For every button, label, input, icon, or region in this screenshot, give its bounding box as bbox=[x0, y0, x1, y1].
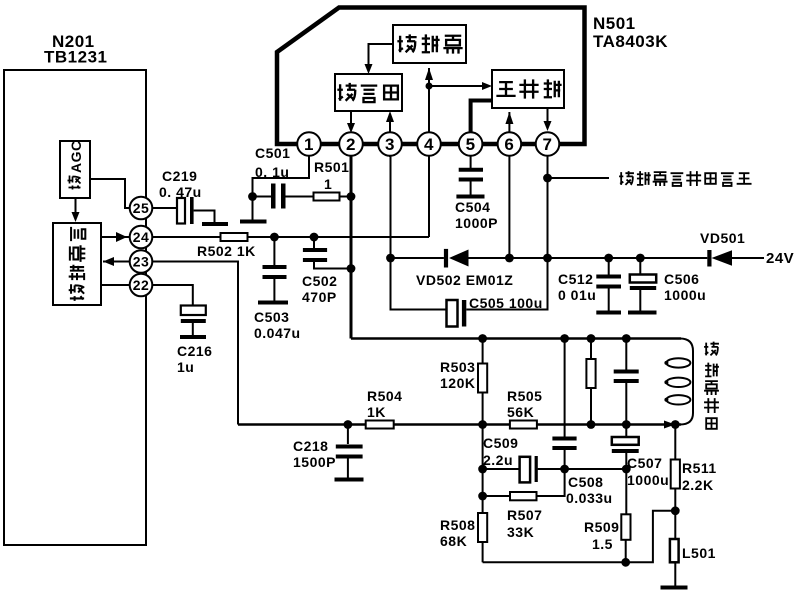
coil loop 1 bbox=[666, 358, 690, 367]
wire pin5 down to C504 bbox=[470, 155, 472, 168]
block 场AGC bbox=[60, 140, 90, 198]
svg-text:1u: 1u bbox=[177, 359, 194, 375]
svg-text:25: 25 bbox=[133, 200, 150, 216]
capacitor C507 bbox=[612, 425, 669, 489]
resistor R509 bbox=[584, 469, 631, 562]
junction coil bottom bbox=[671, 420, 680, 429]
resistor unlabeled bbox=[586, 339, 595, 425]
svg-text:3: 3 bbox=[385, 135, 395, 154]
svg-text:VD502 EM01Z: VD502 EM01Z bbox=[416, 272, 513, 288]
svg-text:0.047u: 0.047u bbox=[254, 325, 301, 341]
junction aux resistor bottom bbox=[587, 420, 596, 429]
inductor L501 bbox=[670, 539, 716, 586]
wire pin1 L-path bbox=[253, 156, 310, 197]
capacitor C218 bbox=[293, 425, 363, 478]
wire pin4 down to R502 line bbox=[428, 155, 430, 237]
wire top bus bbox=[351, 337, 681, 340]
arrow into coil bottom junction bbox=[664, 421, 675, 429]
junction R507 left bbox=[478, 492, 487, 501]
svg-text:0.033u: 0.033u bbox=[566, 490, 613, 506]
junction aux cap top on bus bbox=[622, 334, 631, 343]
svg-text:0. 47u: 0. 47u bbox=[159, 184, 202, 200]
capacitor C503 bbox=[254, 237, 301, 341]
junction R501/pin2 line bbox=[347, 192, 356, 201]
svg-text:1000u: 1000u bbox=[664, 287, 706, 303]
diode VD501 bbox=[700, 230, 764, 267]
svg-text:R511: R511 bbox=[682, 460, 717, 476]
svg-text:C502: C502 bbox=[302, 273, 337, 289]
junction C512 top bbox=[604, 254, 613, 263]
coil loop 3 bbox=[666, 395, 690, 404]
pin 23 bbox=[130, 250, 153, 273]
svg-text:C504: C504 bbox=[455, 199, 490, 215]
pin 1 bbox=[297, 132, 321, 156]
svg-text:5: 5 bbox=[466, 135, 476, 154]
wire pin2 vertical down to bus bbox=[350, 156, 353, 339]
resistor R508 bbox=[440, 425, 487, 563]
svg-text:2.2K: 2.2K bbox=[682, 477, 714, 493]
svg-text:C218: C218 bbox=[293, 438, 328, 454]
resistor R505 bbox=[507, 388, 542, 429]
svg-text:C506: C506 bbox=[664, 271, 699, 287]
svg-text:R508: R508 bbox=[440, 517, 475, 533]
resistor R502 bbox=[197, 233, 256, 259]
svg-text:C219: C219 bbox=[162, 168, 197, 184]
wire pin4 branch to 泵电源 with arrow bbox=[426, 82, 493, 90]
junction pin6 line bbox=[505, 254, 514, 263]
svg-text:1: 1 bbox=[304, 135, 314, 154]
ground for node A bbox=[240, 220, 267, 224]
wire middle line C509 bbox=[483, 468, 627, 470]
pin 25 bbox=[130, 197, 153, 220]
ground for C218 bbox=[335, 478, 364, 482]
svg-text:VD501: VD501 bbox=[700, 230, 745, 246]
ground for C512 bbox=[596, 311, 621, 315]
label 场逆程脉冲输出 bbox=[619, 171, 751, 186]
svg-text:R503: R503 bbox=[440, 359, 475, 375]
capacitor C506 bbox=[630, 258, 706, 311]
capacitor C216 bbox=[177, 306, 212, 376]
svg-text:R504: R504 bbox=[367, 388, 402, 404]
wire pin7 down bbox=[547, 155, 549, 258]
svg-text:1500P: 1500P bbox=[293, 454, 336, 470]
wire VD502 horizontal line bbox=[391, 257, 708, 259]
pin 4 bbox=[417, 132, 441, 156]
junction C218 top bbox=[344, 420, 353, 429]
pin 5 bbox=[459, 132, 483, 156]
svg-text:R505: R505 bbox=[507, 388, 542, 404]
wire 泵电源 to pin7 with arrow bbox=[544, 108, 552, 131]
junction left middle bbox=[478, 465, 487, 474]
svg-text:C508: C508 bbox=[568, 474, 603, 490]
ground for C504 bbox=[456, 195, 484, 199]
svg-text:C512: C512 bbox=[558, 271, 593, 287]
resistor R507 bbox=[483, 469, 565, 540]
resistor R501 bbox=[314, 159, 352, 201]
svg-text:56K: 56K bbox=[507, 404, 534, 420]
block 场锯齿波 bbox=[53, 223, 101, 305]
block 场输出 bbox=[335, 74, 402, 111]
junction pin7 pulse branch bbox=[543, 174, 552, 183]
svg-text:0 01u: 0 01u bbox=[558, 287, 596, 303]
junction R503 top on bus bbox=[478, 334, 487, 343]
svg-text:24V: 24V bbox=[766, 250, 794, 267]
svg-text:2.2u: 2.2u bbox=[483, 452, 513, 468]
svg-text:0. 1u: 0. 1u bbox=[255, 164, 289, 180]
wire pulse output branch bbox=[548, 177, 610, 179]
wire pin3 to 场输出 with arrow bbox=[386, 111, 394, 157]
svg-text:1.5: 1.5 bbox=[592, 536, 613, 552]
svg-text:AGC: AGC bbox=[68, 140, 84, 173]
node A junction bbox=[248, 192, 257, 201]
capacitor C501 bbox=[253, 145, 314, 209]
svg-text:1000P: 1000P bbox=[455, 215, 498, 231]
pin 7 bbox=[536, 132, 560, 156]
block 泵电源 bbox=[492, 70, 564, 108]
pin 2 bbox=[339, 132, 363, 156]
junction C507 bottom bbox=[622, 465, 631, 474]
svg-text:33K: 33K bbox=[507, 524, 534, 540]
capacitor C504 bbox=[455, 170, 498, 231]
svg-text:TA8403K: TA8403K bbox=[593, 32, 668, 51]
svg-text:L501: L501 bbox=[682, 545, 716, 561]
junction C508 top on bus bbox=[560, 334, 569, 343]
wire R502 line from pin24 to pin4 corner bbox=[152, 236, 429, 238]
junction C503 top bbox=[270, 233, 279, 242]
svg-text:1: 1 bbox=[324, 176, 332, 192]
coil loop 2 bbox=[666, 378, 690, 387]
wire bottom line bbox=[483, 511, 676, 563]
svg-text:R507: R507 bbox=[507, 507, 542, 523]
ground for C506 bbox=[628, 311, 657, 315]
wire pin3 down bbox=[391, 155, 447, 310]
capacitor unlabeled bbox=[614, 339, 639, 425]
N501 IC outline TA8403K bbox=[277, 8, 585, 145]
ground for C219 bbox=[202, 222, 228, 226]
junction R511 bottom bbox=[671, 506, 680, 515]
capacitor C512 bbox=[558, 258, 621, 311]
pin 22 bbox=[130, 274, 153, 297]
junction pin7/VD502 line bbox=[543, 254, 552, 263]
block 场激励 bbox=[393, 25, 466, 63]
junction C506 top bbox=[636, 254, 645, 263]
wire pin4 to 场激励 with arrow bbox=[425, 68, 433, 157]
deflection yoke block outline bbox=[660, 339, 693, 425]
junction C502 top bbox=[310, 233, 319, 242]
wire lower bus bbox=[238, 423, 681, 426]
junction C507 top bbox=[622, 420, 631, 429]
svg-text:1000u: 1000u bbox=[627, 472, 669, 488]
svg-text:68K: 68K bbox=[440, 533, 467, 549]
svg-text:R502 1K: R502 1K bbox=[197, 243, 256, 259]
wire sawtooth to pin 24 with arrow bbox=[101, 232, 130, 242]
pin 24 bbox=[130, 226, 153, 249]
ground for C216 bbox=[180, 335, 206, 339]
svg-text:R501: R501 bbox=[314, 159, 349, 175]
wire node A to ground bbox=[252, 197, 254, 221]
svg-text:24: 24 bbox=[133, 229, 150, 245]
diode VD502 EM01Z bbox=[416, 249, 513, 288]
pin 3 bbox=[378, 132, 402, 156]
resistor R511 bbox=[671, 425, 717, 540]
svg-text:C507: C507 bbox=[627, 455, 662, 471]
wire 场激励 to 场输出 with arrow bbox=[365, 44, 394, 74]
wire pin5 to 泵电源 bbox=[471, 101, 492, 134]
wire pin 23 to sawtooth with arrow bbox=[103, 257, 130, 266]
svg-text:7: 7 bbox=[543, 135, 553, 154]
junction aux resistor top on bus bbox=[587, 334, 596, 343]
junction R503 bottom bbox=[478, 420, 487, 429]
svg-text:C509: C509 bbox=[483, 435, 518, 451]
capacitor C509 bbox=[483, 435, 538, 482]
junction pin3/VD502 line bbox=[386, 254, 395, 263]
svg-text:C503: C503 bbox=[254, 309, 289, 325]
resistor R503 bbox=[440, 339, 487, 425]
wire AGC to pin 25 bbox=[90, 179, 130, 208]
svg-text:470P: 470P bbox=[302, 289, 337, 305]
capacitor C219 bbox=[159, 168, 215, 224]
capacitor C502 bbox=[302, 237, 351, 305]
resistor R504 bbox=[366, 388, 403, 429]
ground for L501 bbox=[661, 586, 688, 590]
svg-text:1K: 1K bbox=[367, 404, 386, 420]
svg-text:TB1231: TB1231 bbox=[44, 48, 107, 67]
pin 6 bbox=[498, 132, 522, 156]
wire pin23 to lower bus bbox=[152, 262, 238, 425]
svg-text:120K: 120K bbox=[440, 375, 475, 391]
wire pin6 to 泵电源 with arrow bbox=[505, 112, 513, 133]
wire AGC to sawtooth with arrow bbox=[72, 198, 80, 222]
svg-text:22: 22 bbox=[133, 277, 150, 293]
svg-text:C216: C216 bbox=[177, 343, 212, 359]
junction C508 bottom bbox=[560, 465, 569, 474]
svg-text:C505 100u: C505 100u bbox=[469, 295, 543, 311]
N201 IC block TB1231 bbox=[4, 70, 146, 545]
svg-text:6: 6 bbox=[504, 135, 514, 154]
label 场偏转线圈 bbox=[704, 342, 719, 429]
wire 场输出 to pin2 with arrow bbox=[347, 111, 355, 133]
ground for C503 bbox=[258, 301, 288, 305]
wire pin 22 to sawtooth bbox=[101, 284, 130, 286]
capacitor C508 bbox=[552, 339, 612, 507]
svg-text:N501: N501 bbox=[593, 14, 636, 33]
svg-text:C501: C501 bbox=[255, 145, 290, 161]
junction R509 bottom bbox=[621, 558, 630, 567]
junction C502 bottom on pin2 line bbox=[347, 264, 356, 273]
svg-text:R509: R509 bbox=[584, 519, 619, 535]
svg-text:4: 4 bbox=[424, 135, 434, 154]
svg-text:23: 23 bbox=[133, 254, 150, 270]
wire pin25 to C219 bbox=[152, 207, 177, 209]
svg-text:2: 2 bbox=[346, 135, 356, 154]
capacitor C505 bbox=[447, 258, 548, 327]
wire pin22 to C216 bbox=[152, 285, 193, 305]
wire pin6 down bbox=[508, 155, 510, 258]
